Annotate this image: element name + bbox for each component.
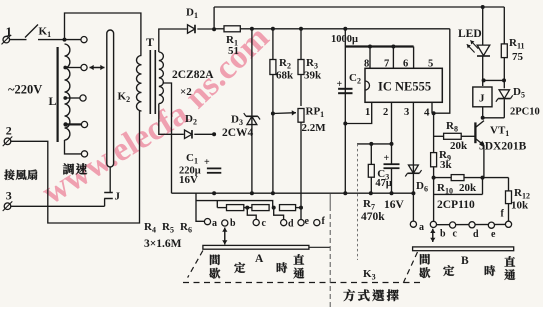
svg-text:1000μ: 1000μ (331, 34, 358, 45)
svg-text:10k: 10k (511, 200, 529, 212)
svg-text:3: 3 (6, 189, 12, 203)
svg-text:3k: 3k (440, 159, 453, 171)
svg-text:b: b (230, 218, 236, 229)
svg-text:e: e (305, 216, 310, 227)
svg-text:+: + (337, 79, 343, 90)
svg-text:6: 6 (403, 59, 408, 70)
svg-text:d: d (288, 219, 294, 230)
svg-text:c: c (262, 218, 267, 229)
svg-text:+: + (204, 157, 210, 168)
svg-text:J: J (479, 93, 485, 105)
svg-text:L: L (49, 94, 57, 108)
svg-text:3DX201B: 3DX201B (479, 141, 527, 153)
svg-text:2.2M: 2.2M (302, 122, 327, 134)
svg-text:2PC10: 2PC10 (510, 107, 540, 118)
svg-text:A: A (255, 253, 264, 265)
svg-text:a: a (212, 218, 217, 229)
svg-text:b: b (440, 229, 446, 240)
svg-text:IC NE555: IC NE555 (378, 80, 431, 94)
svg-text:e: e (491, 229, 496, 240)
svg-text:3×1.6M: 3×1.6M (144, 238, 182, 250)
svg-text:8: 8 (364, 59, 369, 70)
svg-text:c: c (453, 229, 458, 240)
svg-text:5: 5 (428, 59, 433, 70)
svg-text:2: 2 (383, 107, 388, 118)
svg-text:×2: ×2 (180, 86, 192, 98)
svg-text:470k: 470k (361, 211, 385, 223)
svg-text:4: 4 (424, 107, 430, 119)
svg-text:47μ: 47μ (375, 178, 392, 189)
svg-text:16V: 16V (179, 174, 198, 186)
svg-text:20k: 20k (459, 182, 477, 194)
svg-text:2CZ82A: 2CZ82A (172, 69, 214, 81)
svg-text:1: 1 (365, 107, 370, 118)
svg-text:2CW4: 2CW4 (222, 127, 254, 139)
svg-text:+: + (384, 153, 390, 164)
svg-text:1: 1 (6, 24, 13, 39)
svg-text:68k: 68k (276, 70, 294, 82)
svg-text:3: 3 (404, 107, 409, 118)
svg-text:a: a (419, 222, 424, 233)
svg-text:T: T (146, 35, 154, 49)
svg-text:B: B (461, 255, 469, 267)
svg-text:J: J (115, 191, 121, 203)
svg-text:~220V: ~220V (8, 83, 42, 97)
svg-text:7: 7 (384, 59, 389, 70)
svg-text:2: 2 (6, 124, 12, 138)
svg-text:16V: 16V (384, 199, 405, 211)
svg-text:LED: LED (458, 28, 482, 40)
svg-text:2CP110: 2CP110 (437, 199, 475, 211)
svg-text:20k: 20k (450, 140, 468, 152)
svg-text:51: 51 (228, 45, 239, 57)
svg-text:d: d (473, 229, 479, 240)
svg-text:75: 75 (512, 51, 524, 63)
svg-text:39k: 39k (304, 70, 322, 82)
